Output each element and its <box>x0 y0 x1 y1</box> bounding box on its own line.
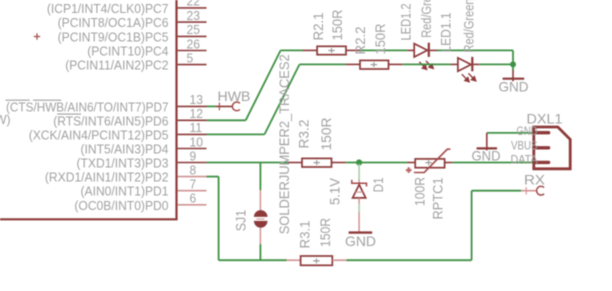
resistor R2.2 right pin <box>389 63 403 65</box>
wire rowA into R2.1 <box>281 49 303 51</box>
svg-text:R3.1: R3.1 <box>297 220 313 248</box>
svg-text:R2.1: R2.1 <box>310 12 326 40</box>
svg-text:(RTS/INT6/AIN5)PD6: (RTS/INT6/AIN5)PD6 <box>53 113 168 128</box>
resistor R2.1 plus mark <box>328 48 334 53</box>
LED LED1.1 cathode bar <box>471 57 473 71</box>
svg-text:GND: GND <box>499 79 529 95</box>
pin stub pin 26 (PC) <box>178 50 207 52</box>
svg-text:(INT5/AIN3)PD4: (INT5/AIN3)PD4 <box>81 142 169 157</box>
pin stub pin 11 (PD) <box>178 133 207 135</box>
svg-text:8: 8 <box>190 162 197 177</box>
svg-text:(TXD1/INT3)PD3: (TXD1/INT3)PD3 <box>77 156 169 171</box>
thermistor RPTC1 origin cross <box>406 167 412 173</box>
svg-text:13: 13 <box>190 92 204 107</box>
pin stub pin 25 (PC) <box>178 35 207 37</box>
wire R3.2 to RPTC1 <box>346 162 408 164</box>
ground GND3 bar <box>477 147 497 149</box>
connector DXL1 pin VBUS bar <box>536 146 549 149</box>
zener D1 cathode pin <box>358 180 360 184</box>
zener D1 anode tick <box>355 191 363 193</box>
svg-text:GND: GND <box>345 233 376 249</box>
LED LED1.2 triangle <box>414 44 427 57</box>
svg-text:R3.2: R3.2 <box>296 119 312 148</box>
resistor R3.1 left pin <box>287 259 301 261</box>
svg-text:LED1.1: LED1.1 <box>438 12 454 52</box>
thermistor RPTC1 left pin <box>407 162 415 164</box>
HWB open pin arc <box>232 102 240 111</box>
svg-text:(PCINT9/OC1B)PC5: (PCINT9/OC1B)PC5 <box>58 29 169 44</box>
plus mark near PC5 label <box>34 33 40 39</box>
svg-text:GND: GND <box>472 148 501 164</box>
svg-text:GND: GND <box>517 124 538 138</box>
wire junction down to D1 <box>358 164 360 180</box>
thermistor RPTC1 body <box>415 159 444 168</box>
pin stub pin 5 (PC) <box>178 64 207 66</box>
resistor R3.1 plus mark <box>313 258 319 263</box>
HWB pin tick <box>218 103 220 111</box>
svg-text:VBUS: VBUS <box>511 138 538 152</box>
svg-text:10: 10 <box>190 134 204 149</box>
LED LED1.1 anode pin <box>451 63 458 65</box>
overline RTS (PD6 label) <box>57 113 81 115</box>
LED LED1.1 triangle <box>458 58 471 71</box>
svg-text:(PCINT10)PC4: (PCINT10)PC4 <box>87 44 168 59</box>
resistor R3.2 right pin <box>332 162 346 164</box>
wire rowD horizontal <box>219 259 287 261</box>
thermistor RPTC1 diagonal <box>414 149 451 172</box>
net stub RX head pin <box>521 190 537 192</box>
svg-text:23: 23 <box>187 8 201 23</box>
svg-text:SJ1: SJ1 <box>233 210 249 232</box>
svg-text:HWB: HWB <box>218 88 251 104</box>
wire junction to GND1 <box>512 64 514 70</box>
wire rowB into R2.2 <box>300 63 346 65</box>
overline HWB (PD7 label) <box>33 99 61 101</box>
LED LED1.2 arrows <box>419 61 433 69</box>
pin stub pin 10 (PD) <box>178 148 207 150</box>
svg-text:9: 9 <box>190 148 197 163</box>
solder jumper SJ1 lower pad <box>254 221 268 228</box>
wire pin9 horizontal <box>207 162 288 164</box>
resistor R2.1 left pin <box>303 49 317 51</box>
svg-text:Red/Green: Red/Green <box>461 0 477 53</box>
svg-text:7: 7 <box>190 177 197 192</box>
solder jumper SJ1 top pin <box>259 190 261 210</box>
svg-text:W): W) <box>0 112 11 127</box>
wire RPTC1 to DXL1 DATA <box>452 162 534 164</box>
LED LED1.2 cathode pin <box>430 49 437 51</box>
wire pin8 down <box>218 177 220 261</box>
wire corner up to RX <box>471 191 473 261</box>
wire LED1.1 to junction <box>479 63 513 65</box>
solder jumper SJ1 gap tick <box>257 218 265 220</box>
zener D1 cathode bar <box>352 180 367 187</box>
svg-text:DATA: DATA <box>511 153 538 167</box>
resistor R2.1 right pin <box>346 49 360 51</box>
resistor R3.1 body <box>301 256 333 265</box>
svg-text:6: 6 <box>190 191 197 206</box>
wire R2.2 to LED1.1 <box>403 63 451 65</box>
wire LED1.2 to corner <box>437 49 513 51</box>
net stub HWB head pin <box>216 105 233 107</box>
svg-text:100R: 100R <box>412 177 428 206</box>
wire pin8 horizontal <box>207 176 219 178</box>
junction node rowA/rowB <box>510 61 516 67</box>
svg-text:(RXD1/AIN1/INT2)PD2: (RXD1/AIN1/INT2)PD2 <box>45 170 169 185</box>
resistor R2.2 body <box>360 60 389 69</box>
pin stub pin 9 (PD) <box>178 162 207 164</box>
svg-text:LED1.2: LED1.2 <box>398 3 414 40</box>
wire DXL1 GND net <box>487 132 534 134</box>
svg-text:SOLDERJUMPER2_TRACES2: SOLDERJUMPER2_TRACES2 <box>276 54 292 234</box>
wire D1 anode to GND2 <box>358 204 360 213</box>
svg-text:150R: 150R <box>329 10 345 41</box>
svg-text:(OC0B/INT0)PD0: (OC0B/INT0)PD0 <box>74 198 168 213</box>
LED LED1.1 arrows <box>462 73 476 81</box>
LED LED1.2 anode pin <box>408 49 415 51</box>
overline CTS (PD7 label) <box>5 99 29 101</box>
connector DXL1 body <box>534 127 570 169</box>
wire pin13 to HWB head <box>207 105 216 107</box>
wire rowA corner down <box>512 50 514 64</box>
svg-text:(PCIN11/AIN2)PC2: (PCIN11/AIN2)PC2 <box>65 58 168 73</box>
wire rowC down to SJ1 <box>259 163 261 191</box>
svg-text:RX: RX <box>524 171 546 187</box>
svg-text:25: 25 <box>187 22 201 37</box>
svg-text:(PCINT8/OC1A)PC6: (PCINT8/OC1A)PC6 <box>58 15 169 30</box>
ground GND2 bar (D1) <box>349 231 373 233</box>
zener D1 anode pin <box>358 198 360 204</box>
wire rowD to corner <box>346 259 471 261</box>
zener D1 triangle <box>353 185 366 198</box>
RX open pin arc <box>537 186 545 195</box>
svg-text:150R: 150R <box>372 24 388 55</box>
pin stub pin 6 (PD) <box>178 204 207 206</box>
pin stub pin 8 (PD) <box>178 176 207 178</box>
resistor R3.2 left pin <box>288 162 302 164</box>
svg-text:(ICP1/INT4/CLK0)PC7: (ICP1/INT4/CLK0)PC7 <box>47 1 169 16</box>
resistor R3.1 right pin <box>332 259 346 261</box>
IC U1 body bottom edge <box>0 218 178 220</box>
svg-text:(AIN0/INT1)PD1: (AIN0/INT1)PD1 <box>81 184 169 199</box>
wire pin11 diagonal <box>265 64 300 134</box>
ground GND2 stem <box>358 212 360 232</box>
svg-text:(CTS/HWB/AIN6/TO/INT7)PD7: (CTS/HWB/AIN6/TO/INT7)PD7 <box>6 99 169 114</box>
svg-text:150R: 150R <box>317 218 333 247</box>
pin stub pin 7 (PD) <box>178 190 207 192</box>
wire to RX head <box>472 190 521 192</box>
svg-text:26: 26 <box>187 36 201 51</box>
resistor R3.2 plus mark <box>314 160 320 165</box>
resistor R3.2 body <box>302 158 332 167</box>
svg-text:5.1V: 5.1V <box>327 177 343 205</box>
solder jumper SJ1 bottom pin <box>259 228 261 244</box>
wire pin12 horizontal <box>207 119 246 121</box>
thermistor RPTC1 center plus <box>425 160 431 165</box>
pin stub pin 23 (PC) <box>178 21 207 23</box>
resistor R2.1 body <box>317 46 346 54</box>
wire R2.1 to LED1.2 <box>360 49 407 51</box>
svg-text:5: 5 <box>187 50 194 65</box>
svg-text:12: 12 <box>190 106 204 121</box>
wire SJ1 to rowD <box>259 244 261 260</box>
pin stub pin 12 (PD) <box>178 119 207 121</box>
wire pin12 diagonal <box>246 50 281 120</box>
LED LED1.2 cathode bar <box>428 43 430 57</box>
svg-text:RPTC1: RPTC1 <box>430 177 446 219</box>
op IC U1 (microcontroller) body right edge <box>175 0 177 219</box>
thermistor RPTC1 right pin <box>445 162 453 164</box>
svg-text:(XCK/AIN4/PCINT12)PD5: (XCK/AIN4/PCINT12)PD5 <box>29 127 169 142</box>
svg-text:11: 11 <box>190 120 203 135</box>
resistor R2.2 left pin <box>346 63 360 65</box>
svg-text:150R: 150R <box>318 118 334 151</box>
pin stub pin 22 (PC) <box>178 7 207 9</box>
connector DXL1 pin GND bar <box>536 131 549 134</box>
ground GND1 stem <box>512 70 514 81</box>
svg-text:R2.2: R2.2 <box>352 26 368 54</box>
pin stub pin 13 (PD) <box>178 105 207 107</box>
wire pin11 horizontal <box>207 133 265 135</box>
RX pin tick <box>525 187 527 195</box>
resistor R2.2 plus mark <box>371 62 377 67</box>
ground GND3 stem <box>486 133 488 151</box>
connector DXL1 pin DATA bar <box>536 161 549 164</box>
svg-text:Red/Green: Red/Green <box>418 0 434 38</box>
ground GND1 bar <box>503 78 525 80</box>
solder jumper SJ1 upper pad <box>254 210 268 217</box>
LED LED1.1 cathode pin <box>474 63 480 65</box>
junction node rowC <box>356 159 362 165</box>
svg-text:D1: D1 <box>370 177 386 192</box>
